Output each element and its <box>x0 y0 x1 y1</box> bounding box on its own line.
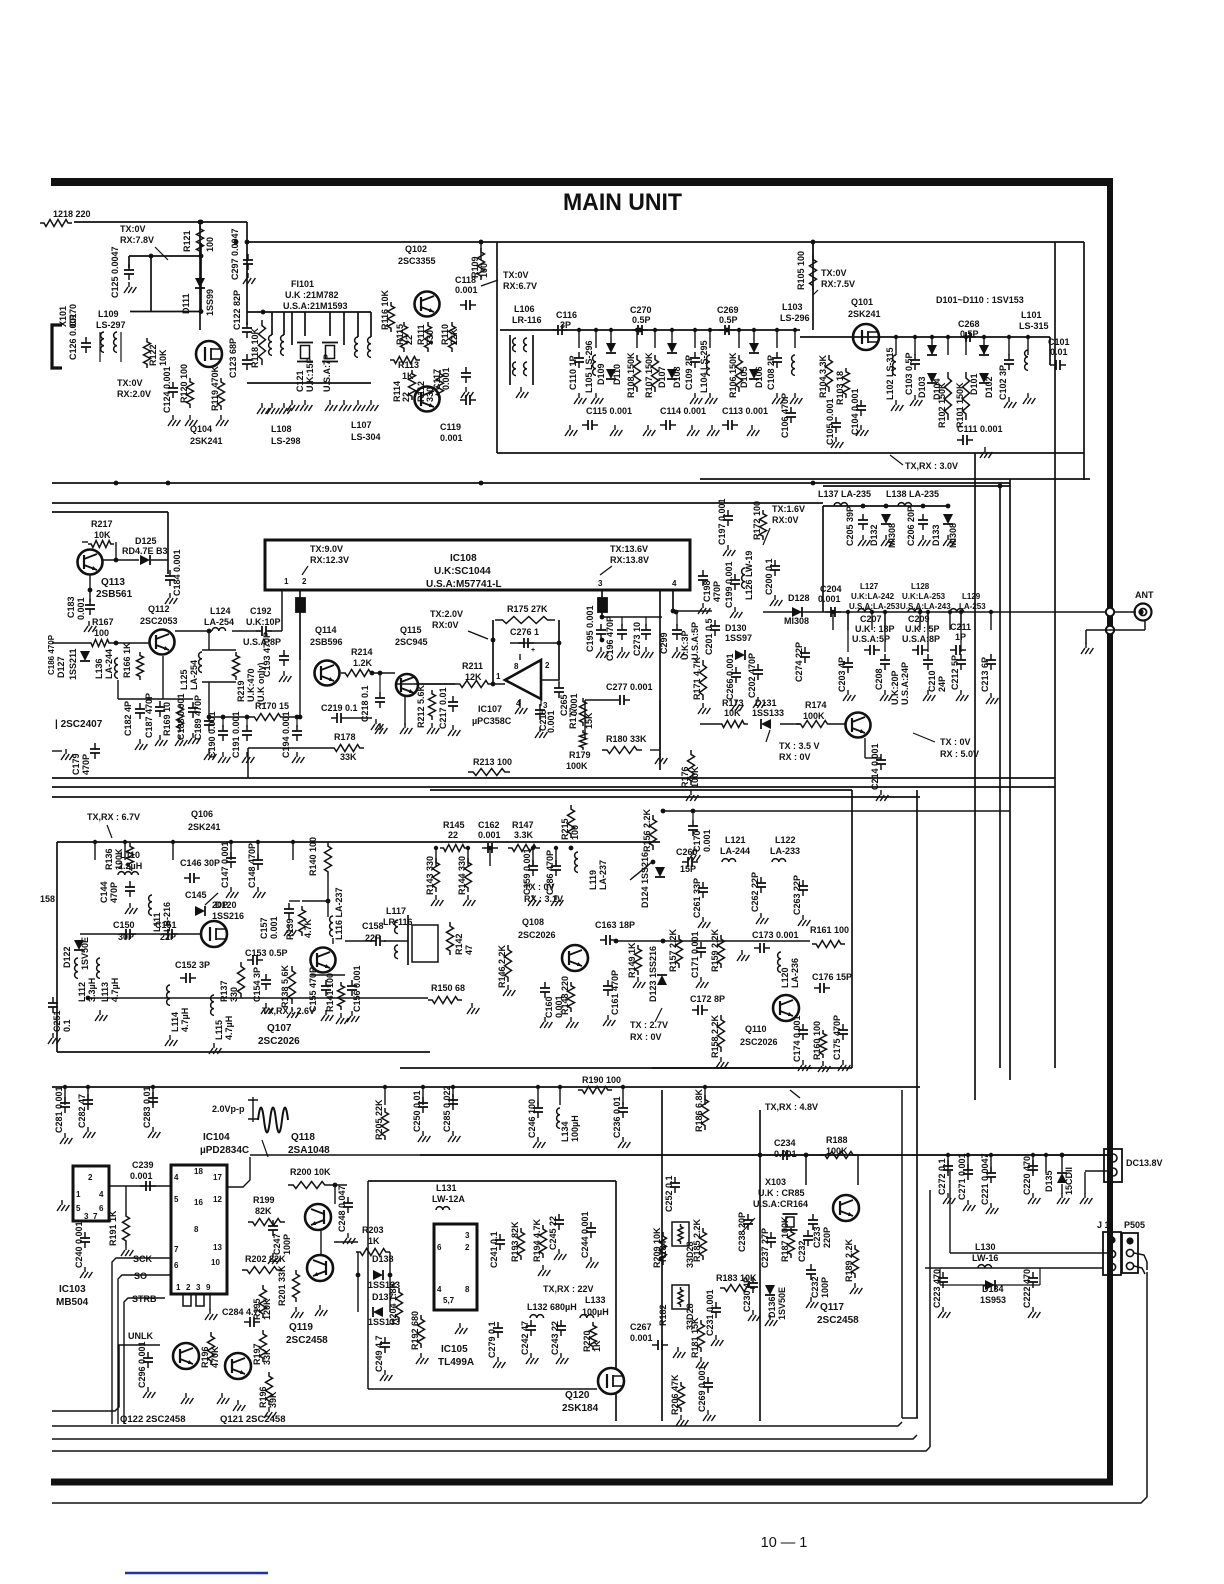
svg-text:L128: L128 <box>911 582 930 591</box>
svg-text:C277 0.001: C277 0.001 <box>606 682 653 692</box>
svg-text:L119: L119 <box>588 870 598 890</box>
svg-text:LA-254: LA-254 <box>189 660 199 690</box>
svg-text:3: 3 <box>196 1283 201 1292</box>
svg-text:9: 9 <box>206 1283 211 1292</box>
svg-text:Q122 2SC2458: Q122 2SC2458 <box>120 1414 186 1425</box>
svg-text:1218 220: 1218 220 <box>53 209 91 219</box>
svg-text:C188 0.001: C188 0.001 <box>176 693 186 740</box>
svg-text:C200 0.1: C200 0.1 <box>764 558 774 595</box>
svg-text:D122: D122 <box>62 946 72 968</box>
svg-text:C204: C204 <box>820 584 842 594</box>
svg-text:C173 0.001: C173 0.001 <box>752 930 799 940</box>
svg-text:R156 2.2K: R156 2.2K <box>642 808 652 852</box>
svg-text:C193 470P: C193 470P <box>262 632 272 677</box>
svg-text:C217 0.01: C217 0.01 <box>438 687 448 729</box>
svg-text:10K: 10K <box>158 349 168 366</box>
svg-text:TX,RX : 3.0V: TX,RX : 3.0V <box>905 461 958 471</box>
svg-text:1SS99: 1SS99 <box>205 289 215 316</box>
svg-text:D101~D110 : 1SV153: D101~D110 : 1SV153 <box>936 295 1024 305</box>
svg-text:U.K:3P: U.K:3P <box>680 630 690 660</box>
svg-text:IC103: IC103 <box>59 1284 86 1295</box>
svg-text:C269 0.001: C269 0.001 <box>697 1365 707 1412</box>
svg-text:C146 30P: C146 30P <box>180 858 220 868</box>
svg-text:TX : 0V: TX : 0V <box>524 882 555 892</box>
svg-text:C276 1: C276 1 <box>510 627 539 637</box>
svg-text:C122 82P: C122 82P <box>232 290 242 330</box>
svg-text:TX:1.6V: TX:1.6V <box>772 504 805 514</box>
svg-text:TX : 3.5 V: TX : 3.5 V <box>779 741 820 751</box>
svg-text:1SS133: 1SS133 <box>752 708 784 718</box>
svg-text:C285 0.022: C285 0.022 <box>442 1085 452 1132</box>
svg-text:Q118: Q118 <box>291 1132 315 1143</box>
svg-text:R187 100K: R187 100K <box>780 1216 790 1262</box>
svg-text:R211: R211 <box>462 661 483 671</box>
svg-text:24P: 24P <box>937 676 947 692</box>
svg-text:| 2SC2407: | 2SC2407 <box>55 719 103 730</box>
svg-text:D103: D103 <box>917 376 927 398</box>
svg-text:Q110: Q110 <box>745 1024 767 1034</box>
svg-text:U.S.A:5P: U.S.A:5P <box>690 622 700 660</box>
svg-text:C214 0.001: C214 0.001 <box>870 743 880 790</box>
svg-text:R145: R145 <box>443 820 465 830</box>
svg-text:R202 82K: R202 82K <box>245 1254 286 1264</box>
svg-text:U.S.A:LA-253: U.S.A:LA-253 <box>849 602 900 611</box>
svg-text:R140 100: R140 100 <box>308 837 318 876</box>
svg-text:µPD2834C: µPD2834C <box>200 1145 249 1156</box>
svg-text:L133: L133 <box>585 1295 606 1305</box>
svg-text:Q117: Q117 <box>820 1302 844 1313</box>
svg-text:R143 330: R143 330 <box>425 856 435 895</box>
svg-text:C270: C270 <box>630 305 652 315</box>
svg-text:C249 4.7: C249 4.7 <box>374 1335 384 1372</box>
svg-text:5,7: 5,7 <box>443 1296 455 1305</box>
svg-text:D138: D138 <box>372 1254 394 1264</box>
svg-text:Q114: Q114 <box>315 625 337 635</box>
svg-text:C209: C209 <box>908 614 930 624</box>
svg-text:LS-296: LS-296 <box>780 313 810 323</box>
svg-text:C218 0.1: C218 0.1 <box>360 685 370 722</box>
svg-text:R105 100: R105 100 <box>796 251 806 290</box>
svg-text:C299: C299 <box>659 632 669 654</box>
svg-text:C148 470P: C148 470P <box>247 843 257 888</box>
svg-text:R201 33K: R201 33K <box>277 1265 287 1306</box>
svg-text:C268: C268 <box>958 319 980 329</box>
svg-text:7: 7 <box>93 1212 98 1221</box>
svg-text:C191 0.001: C191 0.001 <box>231 711 241 758</box>
svg-text:C102 3P: C102 3P <box>998 365 1008 400</box>
svg-text:R190 100: R190 100 <box>582 1075 621 1085</box>
svg-text:C232: C232 <box>797 1240 807 1262</box>
svg-text:U.K:SC1044: U.K:SC1044 <box>434 566 491 577</box>
svg-text:C125 0.0047: C125 0.0047 <box>110 246 120 298</box>
svg-text:2SB596: 2SB596 <box>310 637 343 647</box>
svg-text:4: 4 <box>437 1285 442 1294</box>
svg-text:2SC2026: 2SC2026 <box>518 930 556 940</box>
svg-text:6: 6 <box>99 1204 104 1213</box>
svg-text:R141 100: R141 100 <box>325 973 335 1012</box>
svg-text:RX : 5.0V: RX : 5.0V <box>940 749 979 759</box>
svg-text:C195 0.001: C195 0.001 <box>585 605 595 652</box>
svg-text:1.2K: 1.2K <box>353 658 373 668</box>
svg-text:L132 680µH: L132 680µH <box>527 1302 577 1312</box>
svg-text:R200 10K: R200 10K <box>290 1167 331 1177</box>
svg-text:R186 6.8K: R186 6.8K <box>694 1088 704 1132</box>
svg-text:3: 3 <box>465 1231 470 1240</box>
svg-text:C220 470: C220 470 <box>1022 1156 1032 1195</box>
svg-text:33K: 33K <box>340 752 357 762</box>
svg-text:100K: 100K <box>803 711 825 721</box>
svg-text:U.S.A:7P: U.S.A:7P <box>322 354 332 392</box>
svg-text:0.001: 0.001 <box>546 710 556 733</box>
svg-text:C162: C162 <box>478 820 500 830</box>
svg-text:2: 2 <box>302 577 307 586</box>
svg-text:C222 470: C222 470 <box>1022 1269 1032 1308</box>
svg-text:47: 47 <box>464 945 474 955</box>
svg-text:MAIN UNIT: MAIN UNIT <box>563 189 682 216</box>
svg-text:15P: 15P <box>680 864 696 874</box>
svg-text:8: 8 <box>465 1285 470 1294</box>
svg-text:L130: L130 <box>975 1242 996 1252</box>
svg-text:4: 4 <box>99 1190 104 1199</box>
svg-text:µPC358C: µPC358C <box>472 716 512 726</box>
svg-text:RX : 3.1V: RX : 3.1V <box>524 894 563 904</box>
svg-text:D120: D120 <box>215 900 237 910</box>
svg-text:TX : 2.7V: TX : 2.7V <box>630 1020 668 1030</box>
svg-text:3: 3 <box>598 579 603 588</box>
svg-text:C186 470P: C186 470P <box>47 634 56 675</box>
svg-text:6: 6 <box>437 1243 442 1252</box>
svg-text:D133: D133 <box>931 524 941 546</box>
svg-text:LA-254: LA-254 <box>204 617 234 627</box>
svg-text:R212 5.6K: R212 5.6K <box>416 684 426 728</box>
svg-text:U.S.A:24P: U.S.A:24P <box>900 662 910 705</box>
svg-text:D136: D136 <box>767 1296 777 1318</box>
svg-text:L103: L103 <box>782 302 803 312</box>
svg-text:3: 3 <box>84 1212 89 1221</box>
svg-text:2: 2 <box>465 1243 470 1252</box>
svg-text:C121: C121 <box>295 370 305 392</box>
svg-text:C202 470P: C202 470P <box>747 653 757 698</box>
svg-text:SO: SO <box>134 1271 147 1281</box>
svg-text:L131: L131 <box>436 1183 457 1193</box>
svg-text:RX:12.3V: RX:12.3V <box>310 555 349 565</box>
svg-text:C176 15P: C176 15P <box>812 972 852 982</box>
svg-text:C105 0.001: C105 0.001 <box>825 398 835 445</box>
svg-text:C104 0.001: C104 0.001 <box>850 388 860 435</box>
svg-text:C150: C150 <box>113 920 135 930</box>
svg-text:L134: L134 <box>560 1121 570 1142</box>
svg-text:82K: 82K <box>255 1206 272 1216</box>
svg-text:U.K : 5P: U.K : 5P <box>905 624 940 634</box>
svg-text:C273 10: C273 10 <box>632 622 642 656</box>
svg-text:RX:2.0V: RX:2.0V <box>117 389 151 399</box>
svg-text:R148 220: R148 220 <box>560 976 570 1015</box>
svg-text:3: 3 <box>543 701 548 710</box>
svg-text:D128: D128 <box>788 593 810 603</box>
svg-text:C116: C116 <box>556 310 577 320</box>
svg-text:R184: R184 <box>658 1240 668 1262</box>
svg-text:R185 2.2K: R185 2.2K <box>692 1218 702 1262</box>
svg-text:D101: D101 <box>969 373 979 395</box>
svg-text:C269: C269 <box>717 305 739 315</box>
svg-text:C282 47: C282 47 <box>77 1094 87 1128</box>
svg-text:LR-116: LR-116 <box>512 315 542 325</box>
svg-text:Q113: Q113 <box>101 577 125 588</box>
svg-text:L138 LA-235: L138 LA-235 <box>886 489 939 499</box>
svg-text:C281 0.001: C281 0.001 <box>54 1086 64 1133</box>
svg-text:16: 16 <box>194 1198 203 1207</box>
svg-text:C219 0.1: C219 0.1 <box>321 703 358 713</box>
svg-text:D110: D110 <box>612 364 622 385</box>
svg-text:2: 2 <box>88 1173 93 1182</box>
svg-text:RX : 0V: RX : 0V <box>630 1032 662 1042</box>
svg-text:RX:0V: RX:0V <box>772 515 799 525</box>
svg-text:L125: L125 <box>179 669 189 690</box>
svg-text:R177: R177 <box>568 707 578 729</box>
svg-text:2SC945: 2SC945 <box>395 637 428 647</box>
svg-text:1P: 1P <box>955 632 966 642</box>
svg-text:R178: R178 <box>334 732 356 742</box>
svg-text:U.K:15P: U.K:15P <box>305 357 315 392</box>
svg-text:TL499A: TL499A <box>438 1357 474 1368</box>
svg-text:C267: C267 <box>630 1322 652 1332</box>
svg-text:RX:7.5V: RX:7.5V <box>821 279 855 289</box>
svg-text:2.2µH: 2.2µH <box>118 861 142 871</box>
svg-text:R213 100: R213 100 <box>473 757 512 767</box>
svg-text:C156 0.001: C156 0.001 <box>352 965 362 1012</box>
svg-text:D135: D135 <box>1044 1170 1054 1192</box>
svg-text:R136: R136 <box>104 848 114 870</box>
svg-text:L127: L127 <box>860 582 879 591</box>
svg-text:C174 0.001: C174 0.001 <box>792 1015 802 1062</box>
svg-text:D102: D102 <box>984 376 994 398</box>
svg-text:R203: R203 <box>362 1225 384 1235</box>
svg-text:LS-297: LS-297 <box>96 320 126 330</box>
svg-text:1: 1 <box>284 577 289 586</box>
svg-text:DC13.8V: DC13.8V <box>1126 1158 1163 1168</box>
svg-text:C221 0.0047: C221 0.0047 <box>980 1153 990 1205</box>
svg-text:R170 15: R170 15 <box>255 701 289 711</box>
svg-text:C123 68P: C123 68P <box>228 338 238 378</box>
svg-text:C207: C207 <box>860 614 882 624</box>
svg-text:R193 82K: R193 82K <box>510 1221 520 1262</box>
svg-text:1: 1 <box>176 1283 181 1292</box>
svg-text:0.001: 0.001 <box>774 1149 797 1159</box>
svg-text:RX:0V: RX:0V <box>432 620 459 630</box>
svg-text:L136: L136 <box>94 658 104 679</box>
svg-text:C283 0.01: C283 0.01 <box>142 1086 152 1128</box>
svg-text:R157 2.2K: R157 2.2K <box>668 928 678 972</box>
svg-text:R175 27K: R175 27K <box>507 604 548 614</box>
svg-text:TX:0V: TX:0V <box>117 378 143 388</box>
svg-text:3.3K: 3.3K <box>514 830 534 840</box>
svg-text:1SV50E: 1SV50E <box>777 1287 787 1320</box>
svg-text:0.01: 0.01 <box>1050 347 1068 357</box>
svg-text:0.001: 0.001 <box>441 367 451 390</box>
svg-text:2: 2 <box>186 1283 191 1292</box>
svg-text:R116 10K: R116 10K <box>380 289 390 330</box>
svg-text:C124 0.001: C124 0.001 <box>162 366 172 413</box>
svg-text:MB504: MB504 <box>56 1297 89 1308</box>
svg-text:R149 1K: R149 1K <box>627 942 637 978</box>
svg-text:4.7K: 4.7K <box>303 918 313 938</box>
svg-text:U.S.A:LA-243: U.S.A:LA-243 <box>900 602 951 611</box>
svg-text:4: 4 <box>174 1173 179 1182</box>
svg-text:R150 68: R150 68 <box>431 983 465 993</box>
svg-text:Q107: Q107 <box>267 1023 292 1034</box>
svg-text:0.001: 0.001 <box>818 594 841 604</box>
svg-text:R180 33K: R180 33K <box>606 734 647 744</box>
svg-text:470P: 470P <box>712 581 722 602</box>
svg-text:U.S.A:5P: U.S.A:5P <box>852 634 890 644</box>
svg-text:C119: C119 <box>440 422 461 432</box>
svg-text:2SB561: 2SB561 <box>96 589 133 600</box>
svg-text:TX:9.0V: TX:9.0V <box>310 544 343 554</box>
svg-text:158: 158 <box>40 894 55 904</box>
svg-text:C152 3P: C152 3P <box>175 960 210 970</box>
svg-text:C192: C192 <box>250 606 272 616</box>
svg-text:C103 0.5P: C103 0.5P <box>904 352 914 395</box>
svg-text:C106 470P: C106 470P <box>780 393 790 438</box>
svg-text:R147: R147 <box>512 820 534 830</box>
svg-text:2SK241: 2SK241 <box>190 436 223 446</box>
svg-text:R214: R214 <box>351 647 373 657</box>
svg-text:U.K:20P: U.K:20P <box>890 670 900 705</box>
svg-text:RX:13.8V: RX:13.8V <box>610 555 649 565</box>
svg-text:100P: 100P <box>820 1277 830 1298</box>
svg-text:10K: 10K <box>94 530 111 540</box>
svg-text:17: 17 <box>213 1173 222 1182</box>
svg-text:C163 18P: C163 18P <box>595 920 635 930</box>
svg-text:18: 18 <box>194 1167 203 1176</box>
svg-text:SCK: SCK <box>133 1254 153 1264</box>
svg-text:L112: L112 <box>77 982 87 1002</box>
svg-text:L117: L117 <box>386 906 406 916</box>
svg-text:C205 39P: C205 39P <box>845 506 855 546</box>
svg-text:R142: R142 <box>454 933 464 955</box>
svg-text:R167: R167 <box>92 617 114 627</box>
svg-text:R220: R220 <box>582 1330 592 1352</box>
svg-text:X103: X103 <box>765 1177 786 1187</box>
svg-text:D131: D131 <box>755 698 777 708</box>
svg-text:C144: C144 <box>99 881 109 903</box>
svg-text:U.S.A:CR164: U.S.A:CR164 <box>753 1199 808 1209</box>
svg-text:IC108: IC108 <box>450 553 477 564</box>
svg-text:100: 100 <box>205 237 215 252</box>
svg-text:0.001: 0.001 <box>630 1333 653 1343</box>
svg-text:D127: D127 <box>56 656 66 678</box>
svg-text:C151: C151 <box>155 920 177 930</box>
svg-text:R120 100: R120 100 <box>179 364 189 403</box>
svg-text:R206 47K: R206 47K <box>670 1374 680 1415</box>
svg-text:R173: R173 <box>722 698 744 708</box>
svg-text:R113: R113 <box>398 360 419 370</box>
svg-text:C189 470P: C189 470P <box>193 695 203 740</box>
svg-text:C196 470P: C196 470P <box>605 616 615 661</box>
svg-text:0.5P: 0.5P <box>719 315 738 325</box>
svg-text:Q106: Q106 <box>191 809 213 819</box>
svg-text:R191 1K: R191 1K <box>108 1210 118 1246</box>
svg-text:8: 8 <box>514 662 519 671</box>
svg-text:C175 470P: C175 470P <box>832 1015 842 1060</box>
svg-text:C296 0.001: C296 0.001 <box>137 1341 147 1388</box>
svg-text:R179: R179 <box>569 750 591 760</box>
svg-text:J 1: J 1 <box>1097 1220 1110 1230</box>
svg-text:LA-236: LA-236 <box>790 958 800 988</box>
svg-text:RX:6.7V: RX:6.7V <box>503 281 537 291</box>
svg-text:C297 0.0047: C297 0.0047 <box>230 228 240 280</box>
svg-text:MI308: MI308 <box>887 523 897 548</box>
svg-text:C241 0.1: C241 0.1 <box>489 1231 499 1268</box>
svg-text:C183: C183 <box>66 596 76 618</box>
svg-text:C172 8P: C172 8P <box>690 994 725 1004</box>
svg-text:100: 100 <box>94 628 109 638</box>
svg-text:R188: R188 <box>826 1135 848 1145</box>
svg-text:Q115: Q115 <box>400 625 422 635</box>
svg-text:R161 100: R161 100 <box>810 925 849 935</box>
svg-text:R199: R199 <box>253 1195 275 1205</box>
svg-text:L101: L101 <box>1021 310 1042 320</box>
svg-text:TX:13.6V: TX:13.6V <box>610 544 648 554</box>
svg-text:FI101: FI101 <box>291 279 314 289</box>
svg-text:D107: D107 <box>657 366 667 388</box>
svg-text:L114: L114 <box>170 1012 180 1032</box>
svg-text:C271 0.001: C271 0.001 <box>957 1153 967 1200</box>
svg-text:C187 470P: C187 470P <box>144 693 154 738</box>
svg-text:5: 5 <box>174 1195 179 1204</box>
svg-text:C244 0.001: C244 0.001 <box>580 1211 590 1258</box>
svg-text:C109 2P: C109 2P <box>684 355 694 390</box>
svg-text:R217: R217 <box>91 519 113 529</box>
svg-text:C240 0.001: C240 0.001 <box>74 1221 84 1268</box>
svg-text:TX:0V: TX:0V <box>120 224 146 234</box>
svg-text:2SC2053: 2SC2053 <box>140 616 178 626</box>
svg-text:R139: R139 <box>285 918 295 940</box>
svg-text:5: 5 <box>76 1204 81 1213</box>
svg-text:2SC2026: 2SC2026 <box>740 1037 778 1047</box>
svg-text:LS-315: LS-315 <box>1019 321 1049 331</box>
svg-text:L109: L109 <box>98 309 119 319</box>
svg-text:R138 5.6K: R138 5.6K <box>280 964 290 1008</box>
svg-text:1SS211: 1SS211 <box>68 648 78 680</box>
svg-text:TX:0V: TX:0V <box>503 270 529 280</box>
svg-text:C272 0.1: C272 0.1 <box>937 1158 947 1195</box>
svg-text:2SC2458: 2SC2458 <box>817 1315 859 1326</box>
svg-text:TX,RX : 6.7V: TX,RX : 6.7V <box>87 812 140 822</box>
svg-text:R215: R215 <box>560 818 570 840</box>
svg-text:U.K :21M782: U.K :21M782 <box>285 290 339 300</box>
svg-text:4.7µH: 4.7µH <box>224 1016 234 1040</box>
svg-text:C201 0.5: C201 0.5 <box>704 618 714 655</box>
svg-text:P505: P505 <box>1124 1220 1145 1230</box>
svg-text:RX : 0V: RX : 0V <box>779 752 811 762</box>
svg-text:C237 27P: C237 27P <box>760 1228 770 1268</box>
svg-text:U.K : CR85: U.K : CR85 <box>758 1188 805 1198</box>
svg-text:1SS97: 1SS97 <box>725 633 752 643</box>
svg-text:R137: R137 <box>219 980 229 1002</box>
svg-text:L110: L110 <box>120 850 140 860</box>
svg-text:C179: C179 <box>71 753 81 775</box>
svg-text:0.5P: 0.5P <box>632 315 651 325</box>
svg-text:0.001: 0.001 <box>269 916 279 939</box>
svg-text:C208: C208 <box>874 668 884 690</box>
svg-text:C248 0.047: C248 0.047 <box>337 1185 347 1232</box>
svg-text:2SC3355: 2SC3355 <box>398 256 436 266</box>
svg-text:2SK241: 2SK241 <box>848 309 881 319</box>
svg-text:ANT: ANT <box>1135 590 1154 600</box>
svg-text:C184 0.001: C184 0.001 <box>172 549 182 596</box>
svg-text:1S953: 1S953 <box>980 1295 1006 1305</box>
